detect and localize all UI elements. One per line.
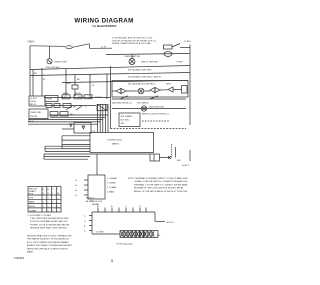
svg-text:D: D: [139, 206, 141, 208]
svg-text:e.P./BT plug blank: e.P./BT plug blank: [116, 244, 134, 246]
svg-text:40V SIGNAL LIGHT RED: 40V SIGNAL LIGHT RED: [128, 69, 152, 72]
svg-text:Y WHT: Y WHT: [176, 62, 183, 64]
svg-text:TERMINAL 2 IS THE GATE TO CONT: TERMINAL 2 IS THE GATE TO CONTACT SW REL…: [134, 183, 188, 186]
svg-text:AT GRN: AT GRN: [86, 200, 94, 203]
svg-text:GROUND PRACTICE: DO NOT OPERAT: GROUND PRACTICE: DO NOT OPERATE THE: [27, 235, 72, 238]
svg-text:4. MAN: 4. MAN: [107, 191, 114, 194]
svg-text:L: L: [52, 193, 54, 195]
svg-text:BR: BR: [34, 73, 37, 75]
svg-text:OFF: OFF: [29, 197, 34, 199]
svg-text:H -: H -: [75, 190, 78, 192]
svg-text:RELEASE IF THE DOOR LATCH IS I: RELEASE IF THE DOOR LATCH IS IN A SET ME…: [134, 187, 184, 190]
svg-text:BROIL: BROIL: [75, 93, 82, 95]
svg-text:BAKE: BAKE: [63, 92, 69, 95]
svg-text:POWER. DOOR IS SHOWN LATCHED A: POWER. DOOR IS SHOWN LATCHED AT: [30, 223, 70, 226]
svg-text:Y BLK: Y BLK: [27, 40, 35, 44]
svg-text:40V TRANS: 40V TRANS: [121, 115, 133, 118]
svg-text:BR 10: BR 10: [30, 104, 37, 106]
svg-text:P WHT: P WHT: [95, 97, 102, 99]
svg-text:BLK SEC: BLK SEC: [121, 120, 130, 122]
svg-text:MADE.: MADE.: [27, 251, 34, 254]
svg-text:CLEAN: CLEAN: [29, 209, 36, 212]
svg-text:SERVICING. REPLACE COVER IF LA: SERVICING. REPLACE COVER IF LA EXIT: [27, 247, 69, 250]
svg-text:B: B: [47, 189, 49, 191]
svg-text:1. X=CONTACT CLOSED: 1. X=CONTACT CLOSED: [27, 214, 51, 217]
svg-text:OVEN LAMP SW: OVEN LAMP SW: [124, 55, 140, 58]
svg-text:40 SV C: 40 SV C: [167, 222, 175, 224]
svg-text:CONTROL BOX: CONTROL BOX: [107, 140, 123, 142]
svg-text:4-: 4-: [84, 231, 86, 233]
svg-text:BLK: BLK: [177, 160, 182, 162]
svg-text:For Model RF330PXV: For Model RF330PXV: [92, 25, 116, 28]
svg-text:2. ALL SWITCHES SHOWN WITH OVE: 2. ALL SWITCHES SHOWN WITH OVEN: [30, 217, 69, 220]
svg-text:RD BLU: RD BLU: [86, 198, 94, 200]
svg-text:THE RANGE UNLESS IT IS GROUNDE: THE RANGE UNLESS IT IS GROUNDED BY: [27, 238, 70, 241]
svg-text:NOTE: TERMINAL 4 IS WIRED DIRE: NOTE: TERMINAL 4 IS WIRED DIRECT TO THE …: [128, 177, 188, 180]
svg-text:C: C: [85, 106, 87, 108]
svg-text:2-: 2-: [84, 221, 86, 223]
svg-text:OVEN TMR: OVEN TMR: [30, 112, 41, 114]
svg-text:BLK: BLK: [157, 235, 162, 237]
svg-text:M: M: [57, 193, 59, 195]
svg-text:1-: 1-: [84, 216, 86, 218]
svg-text:RESIDUE WIRE LEAD JOINT SHOWN.: RESIDUE WIRE LEAD JOINT SHOWN.: [30, 227, 67, 230]
svg-text:C: C: [52, 189, 54, 191]
svg-text:L1 BLK: L1 BLK: [30, 98, 37, 100]
svg-text:2. TIMED: 2. TIMED: [107, 183, 116, 185]
svg-text:3. CLEAN: 3. CLEAN: [107, 186, 117, 189]
svg-text:C: C: [125, 206, 127, 208]
svg-text:BROIL: BROIL: [29, 206, 36, 208]
svg-text:OVEN LIGHT: OVEN LIGHT: [54, 62, 67, 64]
svg-text:L1 BLK: L1 BLK: [184, 41, 191, 43]
svg-text:1. SIGNAL: 1. SIGNAL: [107, 177, 118, 180]
svg-text:R: R: [47, 193, 49, 195]
svg-text:LATCH MOTOR: LATCH MOTOR: [149, 105, 164, 108]
svg-text:5: 5: [111, 259, 113, 263]
svg-text:A BLK: A BLK: [62, 96, 68, 99]
svg-text:N -: N -: [75, 185, 78, 187]
svg-text:MTD MECH: MTD MECH: [137, 102, 149, 104]
svg-text:BLK: BLK: [67, 83, 72, 85]
svg-text:TB2 A: TB2 A: [30, 100, 36, 103]
svg-text:40V SIGNAL LIGHT BRN + RED W: 40V SIGNAL LIGHT BRN + RED W: [128, 76, 161, 79]
svg-text:CIRCUIT IS PROTECTED BY FRONT,: CIRCUIT IS PROTECTED BY FRONT, W. A. CL: [112, 39, 157, 42]
svg-text:LT GRN: LT GRN: [96, 232, 104, 234]
svg-text:BK: BK: [77, 79, 80, 81]
svg-text:ALWAYS DISCONNECT POWER BEFORE: ALWAYS DISCONNECT POWER BEFORE ANY: [27, 244, 72, 247]
svg-text:DOOR IS OPEN AND UNLATCHED. NO: DOOR IS OPEN AND UNLATCHED. NO: [30, 220, 68, 223]
svg-text:B: B: [111, 206, 113, 208]
svg-text:L1 IS GROUND, A 30 OR 50A, N.E: L1 IS GROUND, A 30 OR 50A, N.E.C. FULL: [112, 37, 154, 40]
svg-text:G -: G -: [75, 195, 78, 197]
svg-text:POS: POS: [29, 193, 34, 195]
svg-text:40V INDICATOR LIGHT BLU: 40V INDICATOR LIGHT BLU: [128, 83, 155, 86]
svg-text:SURGE CLAMP DEVICE W. A. NO LO: SURGE CLAMP DEVICE W. A. NO LOAD: [112, 42, 151, 45]
svg-text:BRN TDL+LATCH SW (N.C.): BRN TDL+LATCH SW (N.C.): [142, 113, 169, 116]
svg-text:24V: 24V: [121, 123, 125, 125]
svg-text:BAKE: BAKE: [29, 201, 35, 204]
svg-text:GRN LT GRN SW: GRN LT GRN SW: [141, 62, 158, 64]
svg-text:2762302: 2762302: [14, 256, 25, 260]
svg-text:W: W: [43, 79, 45, 81]
svg-text:WIRING DIAGRAM: WIRING DIAGRAM: [74, 17, 133, 24]
svg-text:3-: 3-: [84, 226, 86, 228]
svg-text:T: T: [57, 189, 59, 191]
svg-text:OVEN: OVEN: [46, 99, 52, 101]
svg-text:40.8V 2: 40.8V 2: [182, 165, 190, 167]
svg-text:TB2 BR: TB2 BR: [30, 116, 38, 118]
svg-text:LATCHED SW (N.O.): LATCHED SW (N.O.): [112, 101, 132, 104]
svg-text:K: K: [43, 193, 45, 195]
svg-text:ANGLE OF THE LATCH MECH IN THE: ANGLE OF THE LATCH MECH IN THE SLOT POSI…: [134, 190, 187, 193]
svg-text:NO: NO: [73, 106, 77, 108]
svg-text:L1 -: L1 -: [75, 180, 79, 182]
svg-text:GRN: GRN: [166, 83, 171, 85]
svg-text:(PART): (PART): [112, 143, 119, 146]
svg-text:A U.L. RECOGNIZED GROUNDING ME: A U.L. RECOGNIZED GROUNDING MEANS: [27, 241, 69, 244]
svg-text:B: B: [43, 189, 45, 191]
svg-text:W: W: [92, 85, 94, 87]
svg-text:CLEAN LT VIA THE SWITCH, CONNE: CLEAN LT VIA THE SWITCH, CONNECTION A AN…: [134, 180, 188, 183]
